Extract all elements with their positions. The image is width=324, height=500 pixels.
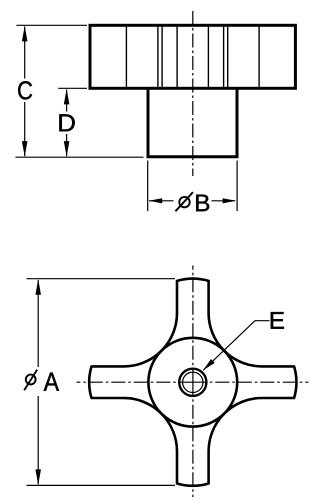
hole outer circle: [179, 369, 206, 396]
dimension line OB left segment: [149, 200, 174, 202]
dimension line OA lower segment: [37, 396, 39, 484]
extension line, left of OB: [147, 161, 149, 212]
arrow OA bottom: [35, 469, 41, 485]
knob profile line L2: [157, 27, 159, 87]
arrow OB right: [223, 198, 237, 203]
label OA diameter symbol slash: [24, 370, 37, 391]
knob profile line L7: [227, 27, 229, 87]
dimension line D lower segment: [66, 134, 68, 156]
knob profile line L3: [161, 27, 163, 87]
hole inner circle: [183, 372, 203, 392]
arrow C bottom: [22, 141, 28, 157]
center line horizontal (plan) left half: [77, 381, 193, 383]
arrow OB left: [149, 198, 163, 203]
dimension line OB right segment: [212, 200, 236, 202]
label OB diameter symbol circle: [179, 197, 189, 207]
arrow D bottom: [64, 141, 70, 157]
leader line E: [203, 321, 269, 371]
label OA diameter symbol circle: [26, 375, 36, 385]
label B: [196, 195, 209, 212]
dimension line OA upper segment: [37, 280, 39, 367]
center line horizontal (plan) right half: [193, 381, 309, 383]
knob profile line L4: [176, 27, 178, 87]
knob profile line L5: [207, 27, 209, 87]
dimension line C lower segment: [24, 102, 26, 156]
dimension line D upper segment: [66, 90, 68, 112]
boss circle (plan): [148, 338, 237, 427]
arrow D top: [64, 89, 70, 105]
label D: [59, 114, 74, 131]
knob profile line L8: [258, 27, 260, 87]
leader arrowhead E: [203, 359, 215, 370]
knob top outline (side view): [90, 25, 295, 88]
knob plan outline: 4 arms with fillets: [89, 279, 296, 486]
extension line, bottom of C and D: [15, 156, 143, 158]
arrow OA top: [35, 279, 41, 295]
label C: [18, 81, 32, 99]
center line vertical (plan) upper half: [192, 266, 194, 383]
label E: [271, 312, 284, 329]
extension line, top of C: [16, 24, 87, 26]
knob profile line L6: [223, 27, 225, 87]
hub outline (side view): [148, 89, 237, 157]
knob profile line L1: [125, 27, 127, 87]
label A: [44, 373, 59, 391]
extension line, top of D: [58, 87, 87, 89]
arrow C top: [22, 26, 28, 42]
center line vertical (plan) lower half: [192, 382, 194, 497]
dimension line C upper segment: [24, 27, 26, 79]
extension line, top of OA: [27, 278, 176, 280]
label OB diameter symbol slash: [175, 192, 193, 211]
center line (top view): [192, 11, 194, 176]
extension line, right of OB: [236, 161, 238, 212]
extension line, bottom of OA: [27, 484, 176, 486]
